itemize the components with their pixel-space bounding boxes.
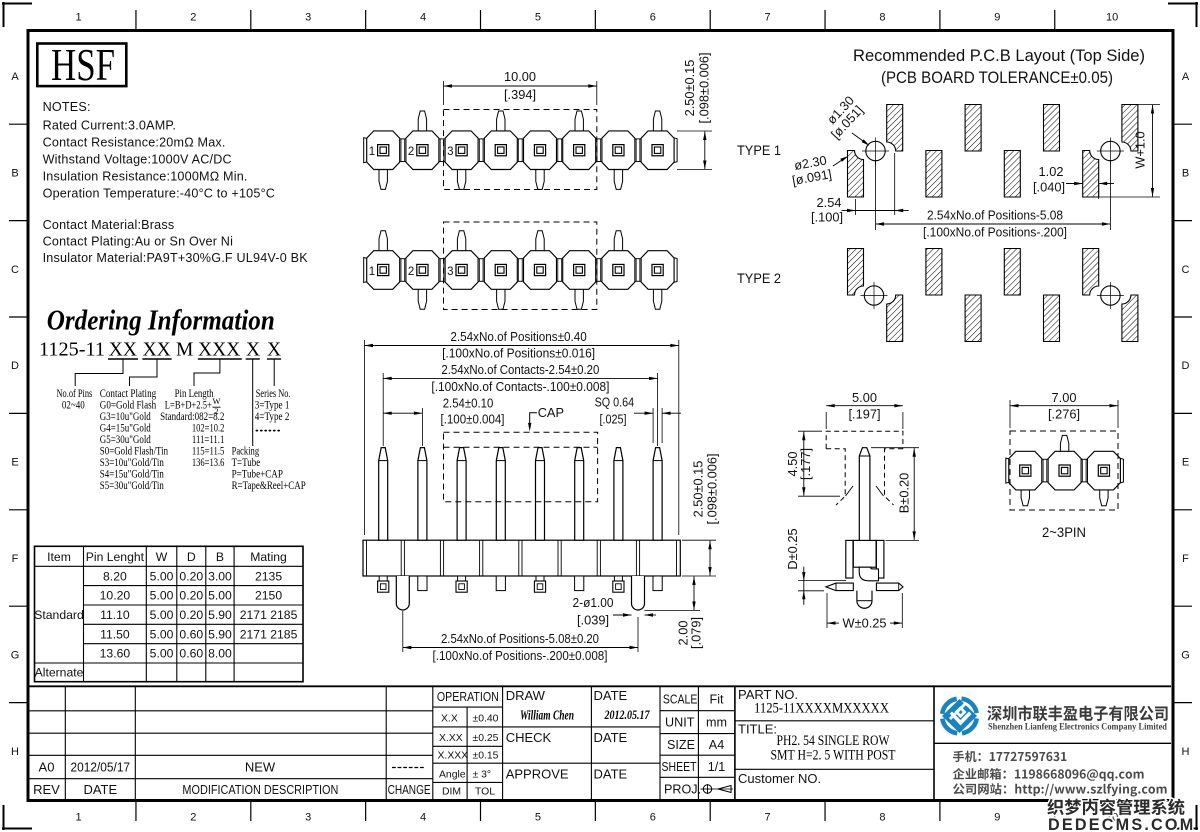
svg-text:NOTES:: NOTES:	[43, 100, 91, 114]
svg-text:10.20: 10.20	[100, 589, 131, 603]
pcb pad row2 col6	[1044, 295, 1060, 342]
pin post up cell 8	[653, 111, 661, 132]
pin 5 side view	[536, 448, 545, 541]
dim peg depth 2.00	[645, 610, 701, 612]
svg-text:CHANGE: CHANGE	[388, 783, 431, 797]
svg-text:Withstand Voltage:1000V AC/DC: Withstand Voltage:1000V AC/DC	[43, 153, 232, 167]
svg-text:G: G	[1181, 649, 1190, 661]
company logo mark	[942, 699, 977, 734]
pin 7 side view	[614, 448, 623, 541]
svg-text:5.00: 5.00	[208, 589, 232, 603]
part number breakdown	[39, 340, 281, 361]
svg-text:(PCB BOARD TOLERANCE±0.05): (PCB BOARD TOLERANCE±0.05)	[881, 68, 1113, 87]
svg-text:Operation Temperature:-40°C to: Operation Temperature:-40°C to +105°C	[43, 187, 276, 201]
svg-text:13.60: 13.60	[100, 647, 131, 661]
svg-text:Contact Material:Brass: Contact Material:Brass	[43, 218, 175, 232]
svg-text:TYPE 1: TYPE 1	[737, 143, 781, 159]
svg-text:2: 2	[214, 406, 218, 416]
svg-text:10: 10	[1106, 12, 1118, 24]
contact website	[953, 783, 1167, 796]
scale block	[697, 686, 699, 800]
pcb pad row1 col4	[965, 105, 981, 152]
cell link 5-6	[556, 259, 563, 282]
svg-text:E: E	[11, 457, 18, 469]
header cell 6	[563, 131, 596, 170]
row end tab left	[364, 138, 368, 163]
pin post down cell 1	[379, 169, 387, 190]
svg-text:1: 1	[75, 812, 81, 824]
dim 2.50 row height	[677, 130, 712, 132]
header cell 8	[641, 251, 674, 290]
pin post down cell 6	[575, 288, 583, 309]
svg-text:X.XX: X.XX	[439, 733, 463, 744]
dim D+-0.25	[798, 580, 846, 582]
svg-text:DRAW: DRAW	[506, 688, 546, 703]
svg-text:2135: 2135	[255, 569, 282, 583]
svg-text:XX: XX	[143, 340, 171, 361]
ordering leader lines	[75, 360, 123, 387]
svg-text:X: X	[246, 340, 260, 361]
2-3pin cell	[1087, 451, 1120, 490]
locating peg left	[396, 576, 409, 610]
svg-text:XX: XX	[109, 340, 137, 361]
svg-text:Mating: Mating	[250, 550, 287, 564]
pin 3 side view	[457, 448, 466, 541]
pcb pad row1 col2	[887, 105, 903, 152]
pin post up cell 6	[575, 111, 583, 132]
svg-text:W: W	[156, 550, 168, 564]
svg-text:Recommended P.C.B Layout (T: Recommended P.C.B Layout (Top Side)	[853, 46, 1145, 65]
svg-text:[.100xNo.of Positions-.200±0.: [.100xNo.of Positions-.200±0.008]	[433, 648, 608, 663]
cell link 7-8	[635, 139, 642, 162]
svg-text:MODIFICATION DESCRIPTION: MODIFICATION DESCRIPTION	[182, 782, 338, 797]
pcb pad row1 col7	[1083, 151, 1099, 198]
svg-text:5.90: 5.90	[208, 627, 232, 641]
svg-text:A: A	[11, 71, 19, 83]
svg-text:11.50: 11.50	[100, 627, 130, 641]
svg-text:A0: A0	[39, 759, 55, 774]
svg-text:William Chen: William Chen	[520, 708, 574, 723]
svg-text:Insulation Resistance:1000MΩ M: Insulation Resistance:1000MΩ Min.	[43, 170, 248, 184]
svg-text:C: C	[11, 264, 19, 276]
body cell separator 5	[557, 540, 559, 576]
cell link 4-5	[517, 259, 524, 282]
svg-text:1: 1	[369, 266, 375, 278]
header cell 5	[524, 131, 557, 170]
pin post down cell 8	[653, 288, 661, 309]
svg-text:H: H	[1182, 746, 1190, 758]
svg-text:TOL: TOL	[475, 787, 495, 798]
svg-text:DIM: DIM	[442, 787, 461, 798]
svg-text:D±0.25: D±0.25	[785, 528, 800, 569]
svg-text:OPERATION: OPERATION	[437, 690, 499, 704]
svg-text:5.00: 5.00	[150, 647, 174, 661]
svg-text:Contact Resistance:20mΩ Max.: Contact Resistance:20mΩ Max.	[43, 136, 226, 150]
svg-text:Customer NO.: Customer NO.	[738, 771, 821, 786]
svg-text:2.54: 2.54	[817, 195, 842, 210]
svg-text:mm: mm	[706, 716, 727, 730]
svg-text:5.00: 5.00	[150, 627, 174, 641]
pin 6 side view	[575, 448, 584, 541]
svg-text:7: 7	[765, 812, 771, 824]
2-3pin cell	[1048, 451, 1081, 490]
cell link 7-8	[635, 259, 642, 282]
single pin cap dashed profile	[826, 431, 903, 449]
solder stub cell 2	[418, 576, 427, 591]
svg-text:10.00: 10.00	[504, 69, 536, 84]
pcb pad row2 col5	[1004, 249, 1020, 296]
svg-text:2.50±0.15: 2.50±0.15	[682, 60, 697, 117]
svg-text:REV: REV	[33, 782, 60, 797]
projection symbol	[703, 785, 711, 793]
svg-text:02~40: 02~40	[62, 398, 85, 411]
cell link 1-2	[399, 139, 406, 162]
svg-text:H: H	[11, 746, 19, 758]
pin 4 side view	[496, 448, 505, 541]
svg-text:2.50±0.15: 2.50±0.15	[691, 461, 706, 518]
svg-text:F: F	[12, 553, 19, 565]
pcb pad row2 col2	[887, 295, 903, 342]
svg-text:D: D	[187, 550, 196, 564]
dim pitch 2.54	[421, 408, 423, 446]
HSF logo box	[37, 44, 126, 87]
grid column ticks	[135, 10, 137, 29]
svg-text:Ordering Information: Ordering Information	[47, 305, 275, 337]
pcb hole left row1	[866, 141, 885, 160]
cell link 2-3	[439, 259, 446, 282]
svg-text:3: 3	[305, 12, 311, 24]
dim 4.50	[798, 430, 822, 432]
svg-text:B: B	[11, 167, 18, 179]
cell link 3-4	[478, 259, 485, 282]
contact email	[953, 768, 1144, 781]
svg-text:PROJ.: PROJ.	[664, 783, 701, 797]
svg-text:5.00: 5.00	[150, 608, 174, 622]
smt pad cell 5	[536, 576, 544, 581]
svg-text:9: 9	[994, 812, 1000, 824]
header cell 1	[367, 131, 400, 170]
svg-text:DATE: DATE	[594, 730, 628, 745]
svg-text:C: C	[1182, 264, 1190, 276]
svg-text:±0.40: ±0.40	[473, 714, 499, 725]
body cell separator 3	[479, 540, 481, 576]
label dia 1.30	[818, 93, 866, 142]
svg-text:3: 3	[305, 812, 311, 824]
svg-text:5.90: 5.90	[208, 608, 232, 622]
svg-text:X: X	[267, 340, 281, 361]
dim positions 0.40	[364, 340, 366, 535]
header cell 7	[602, 251, 635, 290]
draw/check/approve block	[502, 686, 504, 800]
svg-text:Alternate: Alternate	[35, 666, 84, 680]
cell link 6-7	[595, 259, 602, 282]
operation tolerance table	[466, 707, 468, 800]
dim contacts 2.54	[382, 373, 384, 446]
svg-text:[.039]: [.039]	[577, 613, 609, 628]
single pin bent leg	[859, 567, 878, 581]
svg-text:R=Tape&Reel+CAP: R=Tape&Reel+CAP	[232, 479, 306, 492]
svg-text:Pin Lenght: Pin Lenght	[86, 550, 145, 564]
dim positions -5.08 pcb	[875, 160, 877, 230]
watermark cms	[1047, 799, 1184, 816]
svg-text:1: 1	[75, 12, 81, 24]
pcb pad row2 col1	[848, 249, 864, 296]
single pin funnel lines	[846, 486, 854, 496]
company logo block	[933, 686, 935, 800]
svg-text:Shenzhen Lianfeng Electronics: Shenzhen Lianfeng Electronics Company Li…	[988, 722, 1168, 733]
pcb hole left row2	[864, 286, 883, 305]
pin post down cell 2	[418, 288, 426, 309]
single pin wings	[826, 583, 853, 591]
svg-text:DATE: DATE	[83, 782, 117, 797]
svg-text:[.100]: [.100]	[811, 210, 843, 225]
single pin dim 5.00	[825, 412, 827, 429]
svg-text:2150: 2150	[255, 589, 282, 603]
svg-text:SQ 0.64: SQ 0.64	[595, 394, 635, 409]
svg-text:5.00: 5.00	[150, 589, 174, 603]
svg-text:E: E	[1182, 457, 1189, 469]
pin post up cell 5	[536, 231, 544, 252]
single pin	[859, 448, 870, 568]
svg-text:2.54xNo.of Positions±0.40: 2.54xNo.of Positions±0.40	[450, 329, 586, 344]
svg-text:1/1: 1/1	[708, 760, 726, 774]
svg-text:[.025]: [.025]	[600, 411, 627, 426]
body cell separator 1	[400, 540, 402, 576]
svg-text:Standard: Standard	[34, 608, 83, 622]
svg-text:Item: Item	[47, 550, 71, 564]
single pin body	[853, 540, 876, 567]
svg-text:2: 2	[408, 266, 414, 278]
svg-text:A: A	[1182, 71, 1190, 83]
svg-text:2.54xNo.of Positions-5.08: 2.54xNo.of Positions-5.08	[927, 208, 1063, 223]
svg-text:[.098±0.006]: [.098±0.006]	[697, 52, 712, 123]
svg-text:TYPE 2: TYPE 2	[737, 271, 781, 287]
svg-text:6: 6	[650, 812, 656, 824]
pin 2 side view	[418, 448, 427, 541]
pcb pad row1 col3	[926, 151, 942, 198]
svg-text:4: 4	[420, 12, 426, 24]
pcb pad row2 col3	[926, 249, 942, 296]
svg-text:[.079]: [.079]	[689, 617, 704, 649]
dim body height 2.50	[682, 539, 716, 541]
dim positions -5.08 bottom	[402, 611, 404, 652]
pin 8 side view	[653, 448, 662, 541]
dim 10.00	[443, 81, 445, 105]
svg-text:2~3PIN: 2~3PIN	[1042, 525, 1086, 541]
svg-text:[.098±0.006]: [.098±0.006]	[705, 453, 720, 524]
2-3pin post up	[1060, 435, 1068, 452]
svg-text:B±0.20: B±0.20	[897, 473, 912, 513]
row end tab left	[364, 258, 368, 283]
body cell separator 2	[439, 540, 441, 576]
svg-text:7.00: 7.00	[1052, 390, 1077, 405]
svg-text:[.100±0.004]: [.100±0.004]	[441, 411, 505, 426]
svg-text:UNIT: UNIT	[665, 716, 695, 730]
svg-text:B: B	[1182, 167, 1189, 179]
svg-text:S5=30u"Gold/Tin: S5=30u"Gold/Tin	[100, 479, 164, 492]
ordering descriptor columns	[57, 387, 306, 492]
2-3pin dashed outline	[1010, 431, 1118, 510]
svg-text:Angle: Angle	[439, 769, 466, 780]
svg-text:DEDECMS.COM: DEDECMS.COM	[1048, 816, 1195, 832]
header cell 1	[367, 251, 400, 290]
contact phone	[953, 751, 1066, 763]
svg-text:5.00: 5.00	[852, 390, 877, 405]
svg-text:W+1.0: W+1.0	[1133, 131, 1148, 168]
single pin peg	[857, 591, 872, 609]
body cell separator 6	[596, 540, 598, 576]
cell link 2-3	[439, 139, 446, 162]
row end tab right	[673, 138, 677, 163]
svg-text:2.54xNo.of Contacts-2.54±0.20: 2.54xNo.of Contacts-2.54±0.20	[441, 362, 599, 377]
svg-text:[.394]: [.394]	[504, 87, 536, 102]
cell link 5-6	[556, 139, 563, 162]
row end tab right	[673, 258, 677, 283]
dim 2.54 pcb	[855, 199, 857, 215]
svg-text:2: 2	[190, 12, 196, 24]
svg-text:[.177]: [.177]	[798, 448, 813, 480]
svg-text:[.276]: [.276]	[1048, 407, 1080, 422]
svg-text:Insulator Material:PA9T+30%G.F: Insulator Material:PA9T+30%G.F UL94V-0 B…	[43, 251, 309, 265]
body cell separator 4	[518, 540, 520, 576]
dim SQ 0.64	[652, 408, 654, 443]
TYPE 2 dashed outline	[444, 222, 597, 310]
svg-text:SMT H=2. 5 WITH POST: SMT H=2. 5 WITH POST	[771, 748, 896, 764]
header cell 4	[484, 251, 517, 290]
svg-text:W±0.25: W±0.25	[842, 615, 886, 630]
pcb hole right row1	[1101, 141, 1120, 160]
svg-text:Contact Plating:Au or Sn Over: Contact Plating:Au or Sn Over Ni	[43, 235, 234, 249]
svg-text:2.54xNo.of Positions-5.08±0.2: 2.54xNo.of Positions-5.08±0.20	[441, 631, 599, 646]
title block top line	[30, 685, 1172, 687]
svg-text:TITLE:: TITLE:	[738, 722, 777, 737]
header cell 6	[563, 251, 596, 290]
svg-text:5.00: 5.00	[150, 569, 174, 583]
pin post up cell 3	[457, 231, 465, 252]
svg-text:2: 2	[190, 812, 196, 824]
pcb pad row2 col4	[965, 295, 981, 342]
svg-text:XXX: XXX	[198, 340, 240, 361]
svg-text:3: 3	[447, 146, 453, 158]
pcb pad row1 col5	[1004, 151, 1020, 198]
pcb pad row2 col7	[1083, 249, 1099, 296]
TYPE 1 dashed outline	[444, 110, 597, 190]
cell link 3-4	[478, 139, 485, 162]
svg-text:8.00: 8.00	[208, 647, 232, 661]
pin post up cell 4	[497, 111, 505, 132]
svg-text:2171 2185: 2171 2185	[240, 608, 298, 622]
smt pad cell 7	[614, 576, 622, 581]
svg-text:2171 2185: 2171 2185	[240, 627, 298, 641]
part no block	[735, 720, 934, 722]
svg-text:[.040]: [.040]	[1033, 180, 1065, 195]
header cell 2	[406, 251, 439, 290]
svg-text:Rated Current:3.0AMP.: Rated Current:3.0AMP.	[43, 119, 176, 133]
pcb hole right row2	[1101, 286, 1120, 305]
smt pad cell 1	[379, 576, 387, 581]
svg-text:± 3°: ± 3°	[473, 769, 492, 780]
corner trim marks	[2, 2, 32, 27]
svg-text:0.20: 0.20	[179, 569, 203, 583]
svg-text:CHECK: CHECK	[506, 730, 552, 745]
svg-text:1.02: 1.02	[1039, 164, 1064, 179]
svg-text:APPROVE: APPROVE	[506, 767, 569, 782]
header cell 5	[524, 251, 557, 290]
2-3pin cell	[1009, 451, 1042, 490]
cell link 1-2	[399, 259, 406, 282]
header cell 2	[406, 131, 439, 170]
svg-text:SCALE: SCALE	[663, 693, 698, 707]
pcb pad row1 col6	[1044, 105, 1060, 152]
svg-text:0.60: 0.60	[179, 647, 203, 661]
header cell 8	[641, 131, 674, 170]
solder stub cell 8	[653, 576, 662, 591]
2-3pin posts down	[1021, 489, 1029, 506]
svg-text:[.197]: [.197]	[848, 407, 880, 422]
svg-text:[.100xNo.of Positions±0.016]: [.100xNo.of Positions±0.016]	[442, 346, 595, 361]
svg-text:8: 8	[879, 12, 885, 24]
svg-text:CAP: CAP	[538, 405, 564, 420]
pin 1 side view	[379, 448, 388, 541]
body cell separator 7	[635, 540, 637, 576]
svg-text:2012/05/17: 2012/05/17	[71, 759, 131, 774]
pin post down cell 4	[497, 288, 505, 309]
header cell 7	[602, 131, 635, 170]
svg-text:[.100xNo.of Positions-.200]: [.100xNo.of Positions-.200]	[923, 225, 1067, 240]
smt pad cell 3	[458, 576, 466, 581]
svg-text:D: D	[1182, 360, 1190, 372]
pcb pad row1 col1	[848, 151, 864, 198]
svg-text:3: 3	[447, 266, 453, 278]
svg-text:2.54±0.10: 2.54±0.10	[443, 395, 494, 410]
svg-text:1125-11: 1125-11	[39, 340, 105, 361]
solder stub cell 6	[575, 576, 584, 591]
solder stub cell 4	[496, 576, 505, 591]
header cell 3	[445, 131, 478, 170]
svg-text:6: 6	[650, 12, 656, 24]
pin post down cell 3	[457, 169, 465, 190]
svg-text:D: D	[11, 360, 19, 372]
svg-text:0.20: 0.20	[179, 608, 203, 622]
svg-text:NEW: NEW	[245, 759, 276, 774]
pin post down cell 7	[614, 169, 622, 190]
svg-text:SHEET: SHEET	[662, 760, 697, 774]
svg-text:......: ......	[255, 421, 281, 434]
svg-text:F: F	[1182, 553, 1189, 565]
svg-text:1: 1	[369, 146, 375, 158]
svg-text:0.20: 0.20	[179, 589, 203, 603]
part number underlines	[108, 358, 138, 360]
pin post up cell 7	[614, 231, 622, 252]
svg-text:Fit: Fit	[710, 693, 724, 707]
svg-text:8: 8	[879, 812, 885, 824]
cell link 6-7	[595, 139, 602, 162]
pcb pad row2 col8	[1122, 295, 1138, 342]
svg-text:G: G	[11, 649, 20, 661]
dim W+-0.25	[826, 593, 828, 628]
svg-text:X.X: X.X	[441, 714, 458, 725]
dim W+1.0	[1138, 104, 1160, 106]
svg-text:4: 4	[420, 812, 426, 824]
svg-text:5: 5	[535, 12, 541, 24]
svg-text:11.10: 11.10	[100, 608, 130, 622]
svg-text:A4: A4	[709, 738, 724, 752]
pcb pad row1 col8	[1122, 105, 1138, 152]
svg-text:9: 9	[994, 12, 1000, 24]
svg-text:2-ø1.00: 2-ø1.00	[573, 595, 614, 610]
svg-text:M: M	[176, 340, 193, 361]
svg-text:2: 2	[408, 146, 414, 158]
